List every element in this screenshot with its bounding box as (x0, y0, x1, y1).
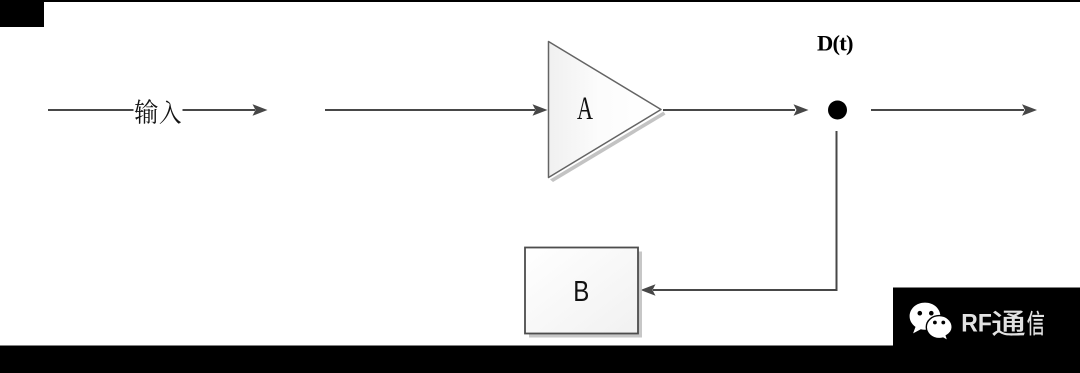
top border line (0, 0, 1080, 2)
top-left corner black block (0, 0, 44, 27)
block B shadow (529, 252, 642, 338)
wechat icon: small bubble (926, 316, 952, 341)
wire: feedback horizontal (653, 289, 838, 291)
svg-text:A: A (577, 91, 594, 127)
watermark panel (893, 288, 1080, 348)
label B (573, 275, 589, 308)
wechat icon: big bubble (910, 303, 941, 334)
watermark text: 信 (1027, 311, 1044, 336)
svg-text:D(t): D(t) (817, 30, 854, 55)
wechat icon: small bubble eyes (933, 321, 937, 325)
wire: vertical feedback (836, 131, 838, 291)
label text: 入 (160, 100, 181, 124)
wechat icon: big bubble eyes (918, 311, 923, 316)
amplifier A triangle (549, 42, 662, 178)
wire: segment to right edge (871, 109, 1024, 111)
arrowhead: into amplifier (533, 104, 548, 116)
svg-text:B: B (573, 275, 589, 308)
wire: output segment (663, 109, 795, 111)
arrowhead: output (794, 104, 809, 116)
svg-text:RF: RF (961, 310, 992, 337)
label A (577, 91, 594, 127)
node dot D(t) (828, 101, 847, 120)
label badge: 输入 (134, 96, 183, 127)
watermark text: 通 (992, 310, 1025, 336)
wire: input segment (48, 109, 255, 111)
block B (525, 248, 638, 334)
amplifier A shadow (550, 112, 666, 183)
arrowhead: right edge (1022, 104, 1037, 116)
bottom black bar (0, 346, 1080, 373)
label badge: D(t) (816, 32, 854, 56)
arrowhead: input (253, 104, 268, 116)
label text: 输 (135, 99, 158, 124)
wire: segment 2 (325, 109, 535, 111)
arrowhead: into B (641, 284, 656, 296)
